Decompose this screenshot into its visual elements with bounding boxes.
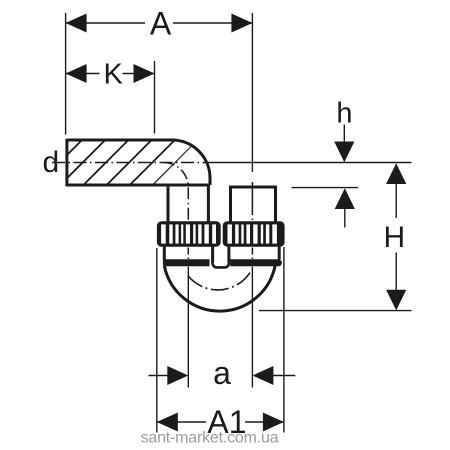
svg-text:A: A [150, 6, 172, 42]
dimension A [66, 22, 252, 24]
dimension A1 [158, 421, 207, 423]
centerline inlet vertical [187, 187, 189, 221]
reference line: pipe axis extension [211, 162, 412, 164]
reference line: outlet top extension [292, 187, 359, 189]
extension line: trap right edge (lower, for A1) [283, 247, 285, 433]
hatching of pipe section [36, 138, 200, 186]
centerline outlet vertical [251, 182, 253, 221]
svg-text:K: K [104, 58, 124, 90]
svg-text:H: H [383, 221, 405, 254]
nut N2 bottom rim [230, 259, 282, 266]
extension line: trap left edge (lower, for A1) [156, 248, 158, 433]
nut N2 skirt sides [229, 247, 279, 262]
wire: inlet drop tube [168, 185, 208, 222]
extension line: K / nut left edge (upper) [154, 61, 156, 134]
extension line: wall face (left) [65, 13, 67, 135]
extension line: outlet axis (upper, for A) [251, 13, 253, 172]
svg-text:a: a [213, 355, 231, 391]
wire: outlet pipe [229, 187, 277, 222]
nut N1 bottom rim [163, 259, 210, 266]
extension line: outlet axis (lower, for a) [251, 267, 253, 388]
bridge between nuts [213, 259, 229, 267]
extension line: inlet axis (lower, for a) [187, 267, 189, 388]
svg-text:d: d [42, 146, 59, 179]
centerline elbow arc [164, 163, 189, 188]
dimension K [66, 73, 154, 75]
nut N1 knurled band (inlet) [157, 221, 221, 246]
arrow up to outlet-top line [335, 188, 355, 209]
dimension a [149, 375, 171, 377]
wire: horizontal inlet pipe outline (hatched cross-section) [67, 139, 210, 187]
centerline d-axis (dash-dot) [52, 162, 211, 164]
reference line: trap bottom extension [259, 310, 412, 312]
dimension H [386, 163, 406, 184]
nut N2 knurled band (outlet) [223, 221, 285, 246]
nut N1 skirt sides [164, 247, 212, 262]
trap bowl outer shell [164, 265, 275, 311]
trap bowl inner centerline arc (dash-dot) [188, 271, 251, 290]
svg-text:sant-market.com.ua: sant-market.com.ua [141, 430, 279, 447]
